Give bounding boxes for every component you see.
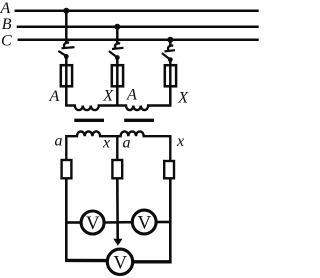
svg-text:X: X xyxy=(177,90,189,107)
svg-text:x: x xyxy=(102,134,110,151)
svg-text:a: a xyxy=(55,132,63,149)
svg-text:V: V xyxy=(113,252,127,273)
svg-text:a: a xyxy=(123,135,131,152)
svg-text:X: X xyxy=(102,88,114,105)
svg-text:A: A xyxy=(0,0,11,17)
svg-text:C: C xyxy=(1,32,12,49)
svg-text:x: x xyxy=(176,133,184,150)
svg-text:V: V xyxy=(138,213,152,234)
svg-text:A: A xyxy=(126,87,137,104)
svg-text:B: B xyxy=(2,16,12,33)
svg-text:V: V xyxy=(86,213,100,234)
svg-text:A: A xyxy=(49,88,60,105)
